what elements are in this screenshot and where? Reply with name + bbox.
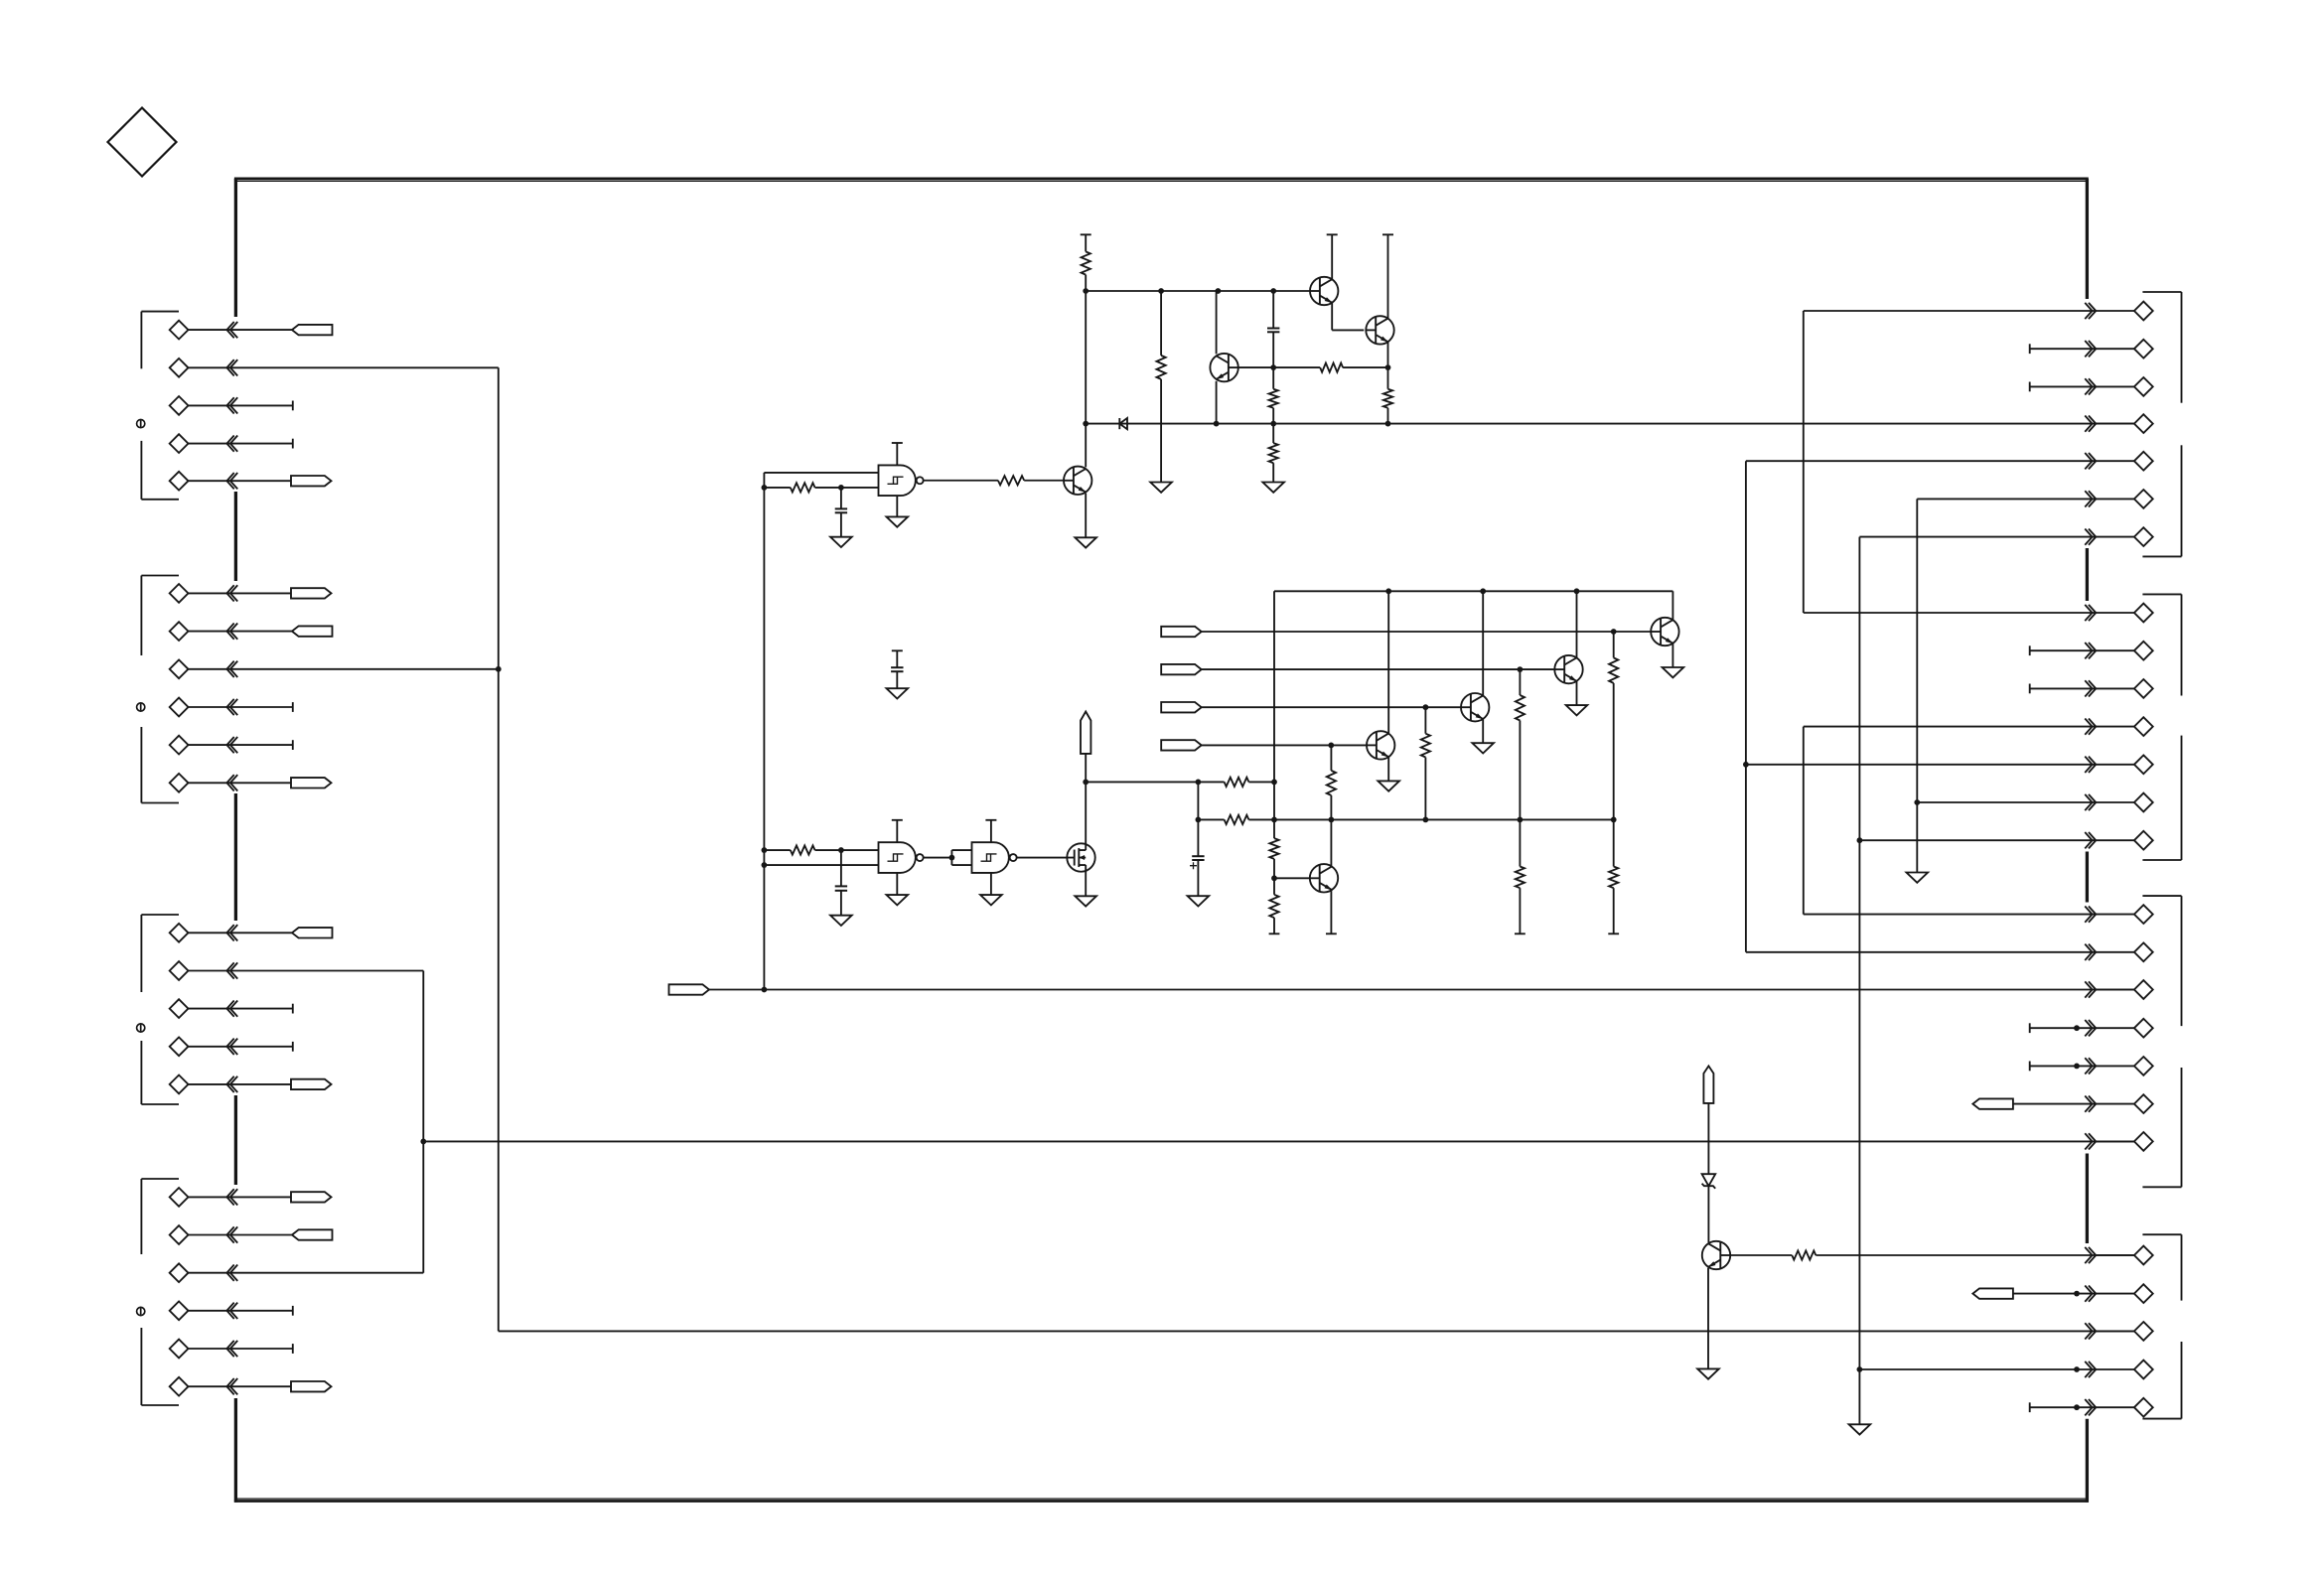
hierarchical pin P16 with output net label	[170, 1076, 332, 1094]
mosfet Q_M	[1067, 843, 1094, 871]
transistor Q_r3	[1461, 693, 1489, 721]
junction node B (net1149 taps V2)	[420, 1139, 426, 1145]
wire Q_top2 emitter chain	[1387, 342, 1389, 389]
right group bracket 1	[2142, 292, 2181, 556]
junction	[1328, 743, 1334, 749]
junction	[1423, 817, 1429, 823]
junction	[1196, 780, 1202, 786]
capacitor C_A	[1267, 329, 1279, 333]
right group bracket 3	[2142, 896, 2181, 1187]
resistor R_O (vertical)	[1516, 669, 1525, 819]
hierarchical pin P8 with wire to x=501.8	[170, 659, 499, 678]
junction	[1518, 817, 1524, 823]
junction	[762, 847, 768, 853]
hierarchical pin R10	[2030, 679, 2153, 698]
hierarchical pin R9	[2030, 642, 2153, 660]
power stub gate U1A	[892, 443, 903, 465]
wire FL1 to Q_r1 base	[1202, 631, 1652, 633]
junction node F	[1914, 799, 1920, 805]
resistor R_D (vertical)	[1269, 443, 1278, 463]
wire net1340 to right pin R23	[499, 1330, 2134, 1332]
hierarchical pin R6	[1917, 490, 2152, 508]
right bus segment (thick)	[2086, 548, 2089, 601]
left bus segment (thick)	[234, 179, 237, 317]
ground Q_r1	[1663, 644, 1684, 678]
vertical net label flag F_D	[1081, 712, 1090, 754]
transistor Q_r1	[1651, 618, 1678, 646]
wire	[1343, 366, 1387, 368]
wire net595 collector rail	[1274, 590, 1672, 592]
transistor Q_mid (mirrored)	[1210, 354, 1237, 381]
resistor R_J (horizontal)	[1225, 778, 1249, 787]
wire gate2 input B	[764, 864, 878, 866]
wire Q_x collector	[1330, 819, 1332, 865]
hierarchical pin P11 with output net label	[170, 774, 332, 792]
hierarchical pin R11	[1804, 717, 2153, 736]
ground gate U1A	[887, 496, 909, 527]
junction	[1611, 817, 1617, 823]
resistor R_G (horizontal)	[764, 483, 878, 492]
schmitt nand gate U1A	[879, 465, 924, 496]
wire V1758 (R5-R12-R16)	[1745, 461, 1747, 952]
wire net1149 to right pin R21	[423, 1140, 2134, 1142]
net label flag FL2	[1161, 664, 1202, 674]
junction	[1271, 780, 1277, 786]
resistor R_Q (vertical)	[1327, 745, 1336, 819]
wire V1206 cap branch	[1197, 782, 1199, 856]
wire gate3 input tie	[951, 850, 971, 865]
junction node D	[1857, 837, 1863, 843]
transistor Q_r2	[1554, 655, 1582, 683]
hierarchical pin R21	[2085, 1132, 2152, 1151]
wire to Q_lower base	[1024, 480, 1064, 482]
power stub gate U1C	[985, 820, 996, 842]
wire	[1272, 463, 1274, 482]
hierarchical pin R18	[2030, 1019, 2153, 1038]
hierarchical pin P14 with stub wire	[170, 999, 293, 1018]
hierarchical pin R19	[2030, 1057, 2153, 1076]
wire V1872 (R7 down)	[1858, 537, 1860, 1425]
junction	[838, 847, 844, 853]
junction node C	[1743, 762, 1749, 768]
hierarchical pin P20 with stub wire	[170, 1301, 293, 1320]
junction	[762, 987, 768, 993]
power stub T3	[1382, 234, 1393, 318]
capacitor C_B to ground	[830, 488, 852, 547]
sheet top border (thin)	[237, 180, 2086, 182]
ground Q_bot emitter	[1697, 1268, 1719, 1379]
wire V1 x=501.8 (P2 to bottom net)	[498, 367, 500, 1331]
resistor R_A (vertical)	[1082, 251, 1090, 274]
wire Q_mid emitter	[1216, 381, 1218, 424]
right bus segment (thick)	[2086, 852, 2089, 903]
junction	[1423, 704, 1429, 710]
net label flag FL3	[1161, 702, 1202, 712]
junction	[762, 862, 768, 868]
ground GND-B	[1150, 483, 1172, 493]
junction	[1611, 629, 1617, 635]
wire V1815a (R1-R8)	[1803, 311, 1805, 613]
sheet bottom border (thin)	[237, 1498, 2086, 1500]
wire gate3 output	[1017, 857, 1068, 859]
vertical net label flag F_B	[1703, 1066, 1713, 1103]
wire net825	[1198, 818, 1614, 820]
capacitor C_C with stub and ground	[887, 650, 909, 698]
hierarchical pin P3 with stub wire	[170, 396, 293, 415]
polarized capacitor C_E	[1190, 856, 1205, 869]
hierarchical pin P22 with output net label	[170, 1377, 332, 1396]
sheet top bus (thick)	[234, 178, 2089, 181]
transistor Q_top2	[1366, 316, 1393, 344]
junction	[1158, 288, 1164, 294]
junction	[838, 485, 844, 491]
junction	[1083, 780, 1089, 786]
net label flag F_OUT	[669, 984, 710, 994]
left group marker symbol 3	[137, 1024, 145, 1032]
junction	[1385, 588, 1391, 594]
diode D1	[1119, 418, 1127, 429]
ground GND-V1872	[1849, 1424, 1871, 1434]
resistor R_N (vertical)	[1609, 632, 1618, 819]
wire V1093 collector feed	[1085, 291, 1087, 467]
ground GND-V1930	[1907, 873, 1929, 883]
right bus segment (thick)	[2086, 1419, 2089, 1503]
wire Q_x base	[1274, 877, 1310, 879]
ground GND-Q_lower	[1075, 494, 1096, 548]
left group marker symbol 4	[137, 1307, 145, 1315]
right bus segment (thick)	[2086, 179, 2089, 299]
ground gate U1B	[887, 873, 909, 906]
wire	[1198, 781, 1274, 783]
right group bracket 4	[2142, 1234, 2181, 1418]
left group bracket 1	[141, 312, 179, 500]
wire Q_top1 emitter	[1332, 303, 1364, 331]
junction	[1271, 875, 1277, 881]
left group marker symbol 2	[137, 703, 145, 711]
hierarchical pin P4 with stub wire	[170, 434, 293, 453]
hierarchical pin R15	[1804, 905, 2153, 924]
wire	[1272, 291, 1274, 389]
resistor R_P (vertical)	[1421, 707, 1430, 819]
transistor Q_lower	[1064, 467, 1091, 495]
junction	[1083, 421, 1089, 427]
corner diamond marker	[108, 108, 177, 177]
hierarchical pin R26	[2030, 1398, 2153, 1417]
power stub gate U1B	[892, 820, 903, 842]
right group bracket 2	[2142, 594, 2181, 860]
resistor R_B (vertical)	[1157, 356, 1166, 379]
resistor R_M (vertical)	[1269, 895, 1278, 918]
wire Q_mid collector	[1216, 291, 1218, 354]
hierarchical pin P15 with stub wire	[170, 1037, 293, 1056]
hierarchical pin R3	[2030, 377, 2153, 396]
wire Q_r4 collector	[1387, 591, 1389, 733]
wire V1930 (R6-R13)	[1916, 499, 1918, 872]
ground C_E	[1188, 860, 1210, 907]
wire Q_mid base net	[1238, 366, 1320, 368]
wire V770 top corner	[763, 473, 765, 990]
hierarchical pin P7 with input net label	[170, 622, 333, 641]
junction	[1271, 817, 1277, 823]
transistor Q_x	[1310, 864, 1338, 892]
left group marker symbol 1	[137, 420, 145, 428]
ground Q_r3	[1472, 719, 1494, 754]
hierarchical pin P21 with stub wire	[170, 1340, 293, 1359]
hierarchical pin P12 with input net label	[170, 924, 333, 942]
power stub T1	[1081, 234, 1091, 251]
hierarchical pin R24	[2085, 1322, 2152, 1341]
hierarchical pin P9 with stub wire	[170, 698, 293, 717]
junction node A (P8 joins V1)	[496, 666, 502, 672]
resistor R_C (vertical)	[1269, 389, 1278, 408]
left group bracket 2	[141, 576, 179, 803]
left bus segment (thick)	[234, 1095, 237, 1185]
zener diode DZ1	[1702, 1174, 1716, 1189]
net label flag FL4	[1161, 740, 1202, 750]
hierarchical pin P6 with output net label	[170, 584, 332, 603]
wire net996 to right pin R17	[709, 989, 2134, 991]
junction	[1216, 288, 1222, 294]
wire zener to Q_bot	[1707, 1186, 1709, 1242]
resistor R_H (horizontal)	[998, 476, 1024, 485]
schmitt nand gate U1C	[972, 842, 1017, 873]
resistor R_L (vertical)	[1269, 838, 1278, 859]
ground mosfet source	[1075, 871, 1096, 907]
junction	[949, 855, 955, 861]
hierarchical pin R5	[1746, 452, 2153, 471]
left group bracket 4	[141, 1179, 179, 1405]
hierarchical pin P10 with stub wire	[170, 736, 293, 755]
net label flag FL1	[1161, 627, 1202, 637]
resistor R_R (vertical)	[1515, 819, 1525, 933]
ground GND-C	[1262, 483, 1284, 493]
wire gate1 input A	[764, 472, 878, 474]
hierarchical pin R1	[1804, 302, 2153, 321]
hierarchical pin R22	[2085, 1246, 2152, 1265]
junction	[1196, 817, 1202, 823]
wire gate1 output	[924, 480, 998, 482]
hierarchical pin R4	[2085, 414, 2152, 433]
resistor R_S (vertical)	[1608, 819, 1619, 933]
wire with end stub	[1269, 918, 1280, 933]
junction	[1480, 588, 1486, 594]
junction	[1518, 666, 1524, 672]
junction	[1329, 817, 1335, 823]
hierarchical pin R2	[2030, 340, 2153, 359]
wire Q_r1 collector	[1671, 591, 1673, 620]
wire	[1273, 859, 1275, 895]
left bus segment (thick)	[234, 793, 237, 921]
wire	[1387, 408, 1389, 424]
resistor R_K (horizontal)	[1225, 815, 1249, 824]
left bus segment (thick)	[234, 492, 237, 581]
wire gate2 out to gate3	[924, 857, 952, 859]
hierarchical pin P1 with input net label	[170, 321, 333, 340]
hierarchical pin R23f	[1972, 1284, 2152, 1303]
junction node E	[1857, 1366, 1863, 1372]
resistor R_I (horizontal)	[764, 845, 878, 854]
wire Q_r2 collector	[1576, 591, 1578, 657]
wire flag to zener	[1707, 1103, 1709, 1174]
junction	[1270, 364, 1276, 370]
transistor Q_top1	[1310, 277, 1338, 305]
wire	[1085, 275, 1087, 291]
hierarchical pin P17 with output net label	[170, 1188, 332, 1207]
wire V2 x=426.3 (P13 to P19)	[422, 971, 424, 1273]
hierarchical pin R12	[1746, 755, 2153, 774]
hierarchical pin P5 with output net label	[170, 472, 332, 491]
hierarchical pin R25	[1859, 1361, 2152, 1379]
hierarchical pin R16	[1746, 942, 2153, 961]
hierarchical pin R13	[1917, 793, 2152, 812]
wire FL3 to Q_r3 base	[1202, 706, 1461, 708]
transistor Q_r4	[1367, 731, 1394, 759]
wire V1283 branch	[1273, 591, 1275, 838]
junction	[1214, 421, 1220, 427]
net426 long wire to right pin R4	[1086, 423, 2134, 425]
capacitor C_D to ground	[830, 850, 852, 926]
junction	[1270, 421, 1276, 427]
wire V1815b (R11-R15)	[1803, 727, 1805, 915]
wire V1169	[1160, 291, 1162, 483]
left group bracket 3	[141, 915, 179, 1104]
power stub T2	[1327, 234, 1338, 279]
wire Q_x emitter with stub	[1326, 891, 1337, 933]
junction	[1270, 288, 1276, 294]
ground Q_r4	[1378, 757, 1399, 791]
hierarchical pin P2 with wire to x=501.8	[170, 359, 499, 377]
hierarchical pin P13 with wire to x=426.3	[170, 961, 424, 980]
wire Q_r3 collector	[1482, 591, 1484, 695]
resistor R_E (horizontal)	[1320, 363, 1343, 372]
wire to right pin R22	[1816, 1254, 2134, 1256]
schmitt nand gate U1B	[879, 842, 924, 873]
hierarchical pin R17	[2085, 980, 2152, 999]
hierarchical pin P18 with input net label	[170, 1225, 333, 1244]
sheet bottom bus (thick)	[234, 1500, 2089, 1503]
wire FL2 to Q_r2 base	[1202, 668, 1555, 670]
hierarchical pin P19 with wire to x=426.3	[170, 1263, 424, 1282]
junction	[762, 485, 768, 491]
hierarchical pin R14	[1859, 831, 2152, 850]
junction	[1385, 421, 1391, 427]
wire Q_bot base	[1730, 1254, 1792, 1256]
junction	[1574, 588, 1580, 594]
wire mosfet drain	[1086, 754, 1198, 844]
hierarchical pin R8	[1804, 604, 2153, 623]
hierarchical pin R7	[1859, 527, 2152, 546]
wire	[1272, 408, 1274, 443]
left bus segment (thick)	[234, 1398, 237, 1503]
wire rail y=293	[1086, 290, 1310, 292]
resistor R_F (vertical)	[1383, 389, 1392, 408]
junction	[1385, 364, 1391, 370]
right bus segment (thick)	[2086, 1154, 2089, 1244]
junction	[1083, 288, 1089, 294]
resistor R_T (horizontal)	[1792, 1250, 1816, 1259]
hierarchical pin R20	[1972, 1094, 2152, 1113]
ground Q_r2	[1566, 681, 1588, 716]
transistor Q_bot (mirrored)	[1702, 1241, 1730, 1269]
ground gate U1C	[980, 873, 1002, 906]
wire FL4 to Q_r4 base	[1202, 744, 1367, 746]
